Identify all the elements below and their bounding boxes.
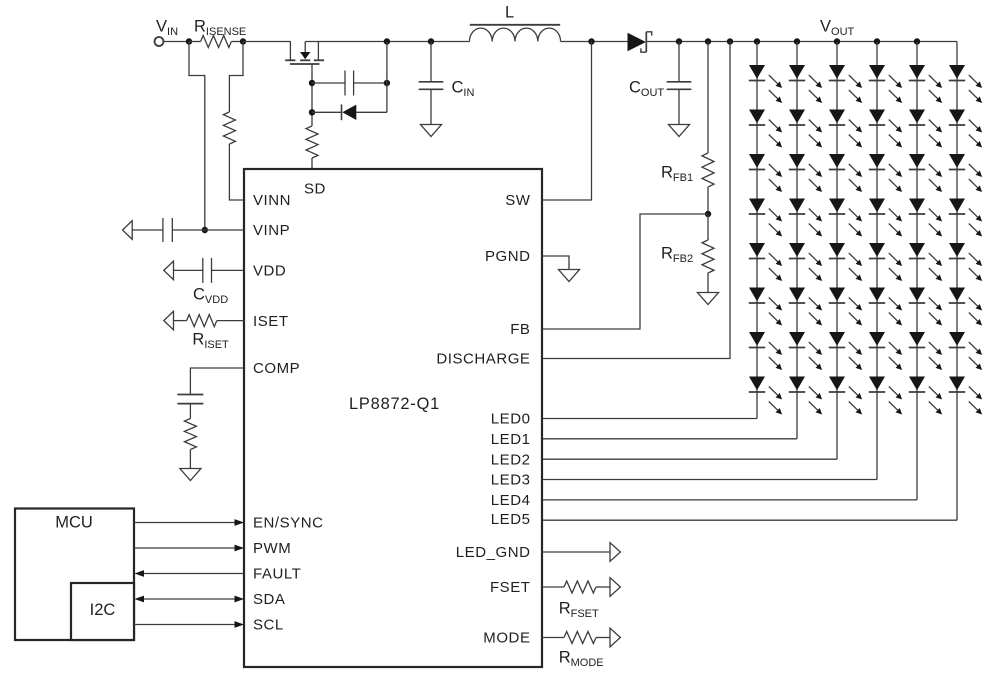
wire FAULT <box>143 573 244 575</box>
resistor R4 on COMP <box>184 419 196 450</box>
resistor RMODE <box>542 637 564 639</box>
LED string 3 (VOUT to LED2) <box>542 38 862 459</box>
wire top rail <box>305 41 469 43</box>
node FB divider junction <box>705 211 711 217</box>
svg-text:SW: SW <box>505 192 531 209</box>
wire gate network to rail <box>386 42 388 113</box>
node B junction <box>240 38 246 44</box>
LED string 5 (VOUT to LED4) <box>542 38 942 500</box>
svg-text:LED1: LED1 <box>491 431 531 448</box>
resistor R2 gate pulldown to SD <box>306 126 318 158</box>
svg-text:RISET: RISET <box>192 331 229 352</box>
node gate-diode junction <box>309 109 315 115</box>
LED string 2 (VOUT to LED1) <box>542 38 822 439</box>
MCU box <box>15 509 134 641</box>
svg-text:LED0: LED0 <box>491 411 531 428</box>
node FSET off-page arrow <box>610 578 620 597</box>
svg-text:SD: SD <box>304 181 326 198</box>
node RFB1 tap <box>705 38 711 44</box>
svg-text:COMP: COMP <box>253 360 300 377</box>
resistor RISENSE <box>201 36 232 48</box>
wire FB feedback <box>542 214 708 329</box>
svg-text:LED3: LED3 <box>491 472 531 489</box>
wire node B to FET source <box>243 42 290 61</box>
svg-text:LED4: LED4 <box>491 492 531 509</box>
node LED_GND off-page arrow <box>610 543 620 562</box>
node VDD off-page arrow <box>164 261 174 280</box>
ground for PGND <box>559 270 580 282</box>
capacitor C2 on VINP <box>132 229 163 231</box>
svg-text:PGND: PGND <box>485 248 531 265</box>
svg-text:PWM: PWM <box>253 540 291 557</box>
node MODE off-page arrow <box>610 628 620 647</box>
wire COMP <box>190 368 244 395</box>
resistor RISET <box>174 320 187 322</box>
wire Q1 gate lead down <box>311 64 313 126</box>
node cap-right junction <box>384 80 390 86</box>
svg-text:VINP: VINP <box>253 222 290 239</box>
svg-text:RFSET: RFSET <box>559 600 599 621</box>
resistor RFB1 <box>707 42 709 154</box>
svg-text:VOUT: VOUT <box>820 18 855 39</box>
diode D2 gate clamp <box>312 111 342 113</box>
svg-text:L: L <box>505 4 514 22</box>
svg-text:FSET: FSET <box>490 579 531 596</box>
svg-text:LP8872-Q1: LP8872-Q1 <box>349 395 440 413</box>
svg-text:LED5: LED5 <box>491 511 531 528</box>
node A junction <box>186 38 192 44</box>
svg-text:VINN: VINN <box>253 192 291 209</box>
wire VINP branch from node A <box>189 42 205 231</box>
LED string 1 (VOUT to LED0) <box>542 38 782 418</box>
capacitor COUT <box>678 42 680 82</box>
svg-text:LED2: LED2 <box>491 451 531 468</box>
wire EN/SYNC <box>134 522 235 524</box>
svg-text:EN/SYNC: EN/SYNC <box>253 515 324 532</box>
wire SW pin to rail <box>542 42 592 201</box>
node DISCHARGE tap <box>727 38 733 44</box>
node COUT tap <box>676 38 682 44</box>
node VINP junction <box>202 227 208 233</box>
op-amp U1 LP8872-Q1 main IC box <box>244 169 542 667</box>
svg-text:I2C: I2C <box>90 601 116 619</box>
svg-text:LED_GND: LED_GND <box>456 544 531 561</box>
svg-text:CIN: CIN <box>452 79 475 100</box>
node ISET off-page arrow <box>164 311 174 330</box>
diode D1 schottky rectifier <box>628 33 646 51</box>
resistor RFSET <box>542 586 564 588</box>
svg-text:RMODE: RMODE <box>559 649 604 670</box>
wire LED_GND <box>542 551 610 553</box>
node SW tap <box>588 38 594 44</box>
wire SCL <box>134 624 235 626</box>
svg-text:VDD: VDD <box>253 263 286 280</box>
capacitor C3 on COMP <box>177 394 203 396</box>
svg-text:MCU: MCU <box>55 514 93 532</box>
svg-text:RISENSE: RISENSE <box>194 18 246 39</box>
wire SDA bidirectional <box>143 598 235 600</box>
svg-text:ISET: ISET <box>253 313 289 330</box>
ground for COMP network <box>180 469 201 481</box>
inductor L <box>469 28 560 41</box>
node gate-cap junction <box>309 80 315 86</box>
wire SD pin <box>311 158 313 169</box>
node rail tap for gate network <box>384 38 390 44</box>
I2C box <box>71 583 134 640</box>
wire rail diode to VOUT corner <box>646 41 957 43</box>
ground for CIN <box>421 125 442 137</box>
resistor R3 on VINN line <box>223 112 235 144</box>
wire PWM <box>134 547 235 549</box>
wire VIN to node A <box>164 41 190 43</box>
capacitor C1 gate-source <box>312 82 345 84</box>
wire VINN branch from node B <box>229 42 243 113</box>
ground for COUT <box>669 125 690 137</box>
svg-text:COUT: COUT <box>629 79 664 100</box>
node VINP off-page arrow <box>123 221 133 240</box>
svg-text:CVDD: CVDD <box>193 286 228 307</box>
svg-text:RFB2: RFB2 <box>661 245 693 266</box>
LED string 6 (VOUT to LED5) <box>542 42 982 521</box>
capacitor CIN <box>430 42 432 82</box>
svg-text:FB: FB <box>510 321 530 338</box>
resistor RFB2 <box>707 214 709 240</box>
transistor Q1 P-FET reverse protection <box>285 42 324 65</box>
svg-text:DISCHARGE: DISCHARGE <box>436 351 530 368</box>
node VIN input terminal <box>155 37 164 46</box>
wire PGND <box>542 256 569 270</box>
svg-text:FAULT: FAULT <box>253 566 301 583</box>
svg-text:SDA: SDA <box>253 591 286 608</box>
svg-text:MODE: MODE <box>483 630 530 647</box>
svg-text:SCL: SCL <box>253 617 284 634</box>
svg-text:VIN: VIN <box>156 18 178 39</box>
node CIN tap <box>428 38 434 44</box>
LED string 4 (VOUT to LED3) <box>542 38 902 479</box>
wire rail inductor to diode <box>561 41 628 43</box>
ground for RFB2 <box>698 293 719 305</box>
svg-text:RFB1: RFB1 <box>661 164 693 185</box>
wire DISCHARGE <box>542 42 730 359</box>
capacitor CVDD <box>174 269 203 271</box>
